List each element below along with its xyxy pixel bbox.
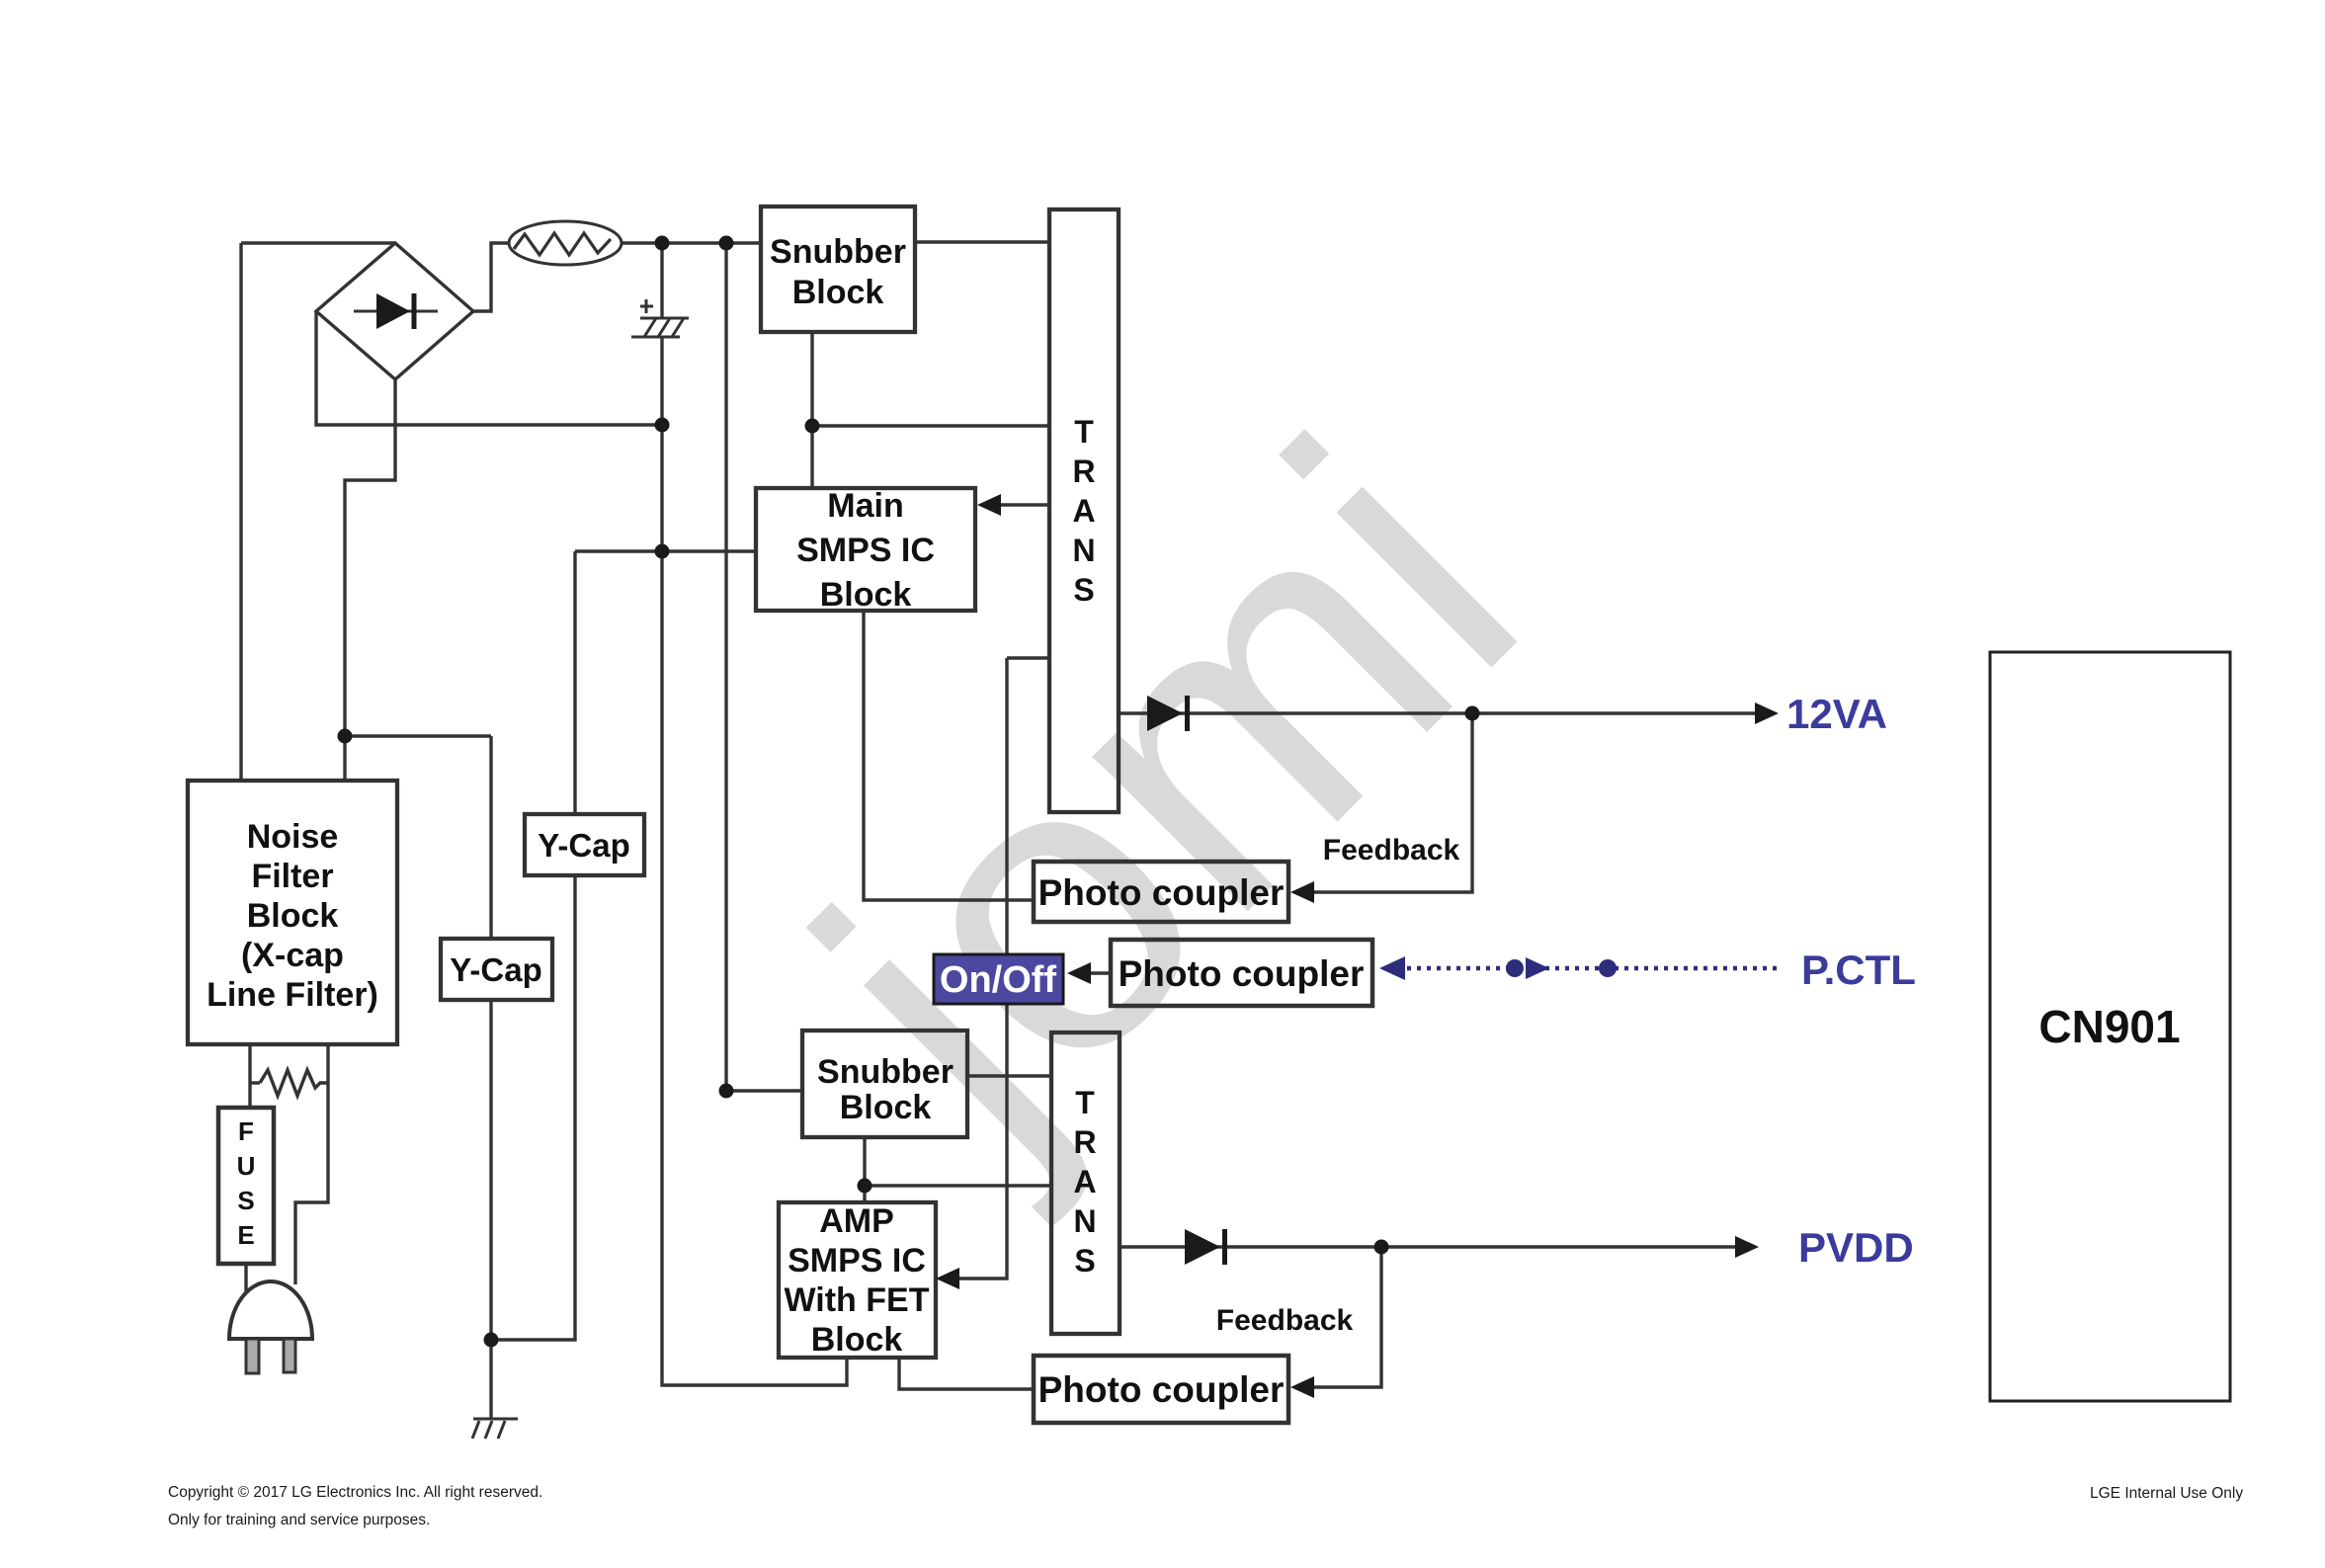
svg-text:A: A [1072, 493, 1095, 529]
svg-text:Y-Cap: Y-Cap [450, 951, 542, 988]
svg-text:F: F [238, 1116, 254, 1146]
svg-text:Feedback: Feedback [1216, 1304, 1354, 1337]
svg-text:N: N [1073, 1203, 1096, 1239]
svg-text:S: S [1073, 572, 1094, 608]
svg-text:R: R [1072, 454, 1095, 489]
svg-text:Only for training and service: Only for training and service purposes. [168, 1512, 430, 1528]
svg-text:T: T [1075, 1085, 1095, 1120]
svg-text:R: R [1073, 1124, 1096, 1160]
svg-text:Line Filter): Line Filter) [207, 976, 378, 1014]
svg-text:AMP: AMP [819, 1202, 894, 1240]
svg-text:PVDD: PVDD [1798, 1224, 1914, 1271]
svg-text:SMPS IC: SMPS IC [796, 532, 935, 569]
svg-text:12VA: 12VA [1786, 691, 1887, 737]
svg-text:P.CTL: P.CTL [1801, 947, 1916, 993]
svg-text:Feedback: Feedback [1323, 834, 1460, 867]
svg-text:Filter: Filter [251, 858, 333, 895]
svg-text:Snubber: Snubber [770, 233, 906, 271]
svg-text:CN901: CN901 [2038, 1001, 2180, 1052]
svg-text:Noise: Noise [247, 818, 339, 856]
svg-text:N: N [1072, 533, 1095, 568]
svg-text:Copyright © 2017 LG Electronic: Copyright © 2017 LG Electronics Inc. All… [168, 1484, 542, 1501]
svg-text:Snubber: Snubber [817, 1053, 954, 1091]
svg-text:A: A [1073, 1164, 1096, 1199]
svg-text:Block: Block [840, 1089, 932, 1126]
svg-text:Photo coupler: Photo coupler [1038, 872, 1285, 913]
svg-text:U: U [237, 1151, 256, 1181]
svg-text:Photo coupler: Photo coupler [1038, 1369, 1285, 1410]
svg-text:Block: Block [820, 576, 912, 614]
svg-text:S: S [1074, 1243, 1095, 1279]
svg-text:Block: Block [247, 897, 339, 935]
svg-text:On/Off: On/Off [940, 959, 1057, 1001]
svg-text:T: T [1074, 414, 1094, 450]
svg-text:Block: Block [792, 274, 884, 311]
svg-text:Photo coupler: Photo coupler [1119, 953, 1365, 994]
svg-text:Block: Block [811, 1321, 903, 1359]
svg-text:LGE Internal Use Only: LGE Internal Use Only [2090, 1485, 2243, 1502]
svg-text:With FET: With FET [785, 1281, 930, 1319]
svg-text:Y-Cap: Y-Cap [538, 827, 630, 864]
svg-text:(X-cap: (X-cap [241, 937, 344, 974]
svg-text:Main: Main [827, 487, 903, 525]
svg-text:E: E [237, 1220, 254, 1250]
svg-text:S: S [237, 1186, 254, 1215]
svg-text:SMPS IC: SMPS IC [788, 1242, 926, 1279]
